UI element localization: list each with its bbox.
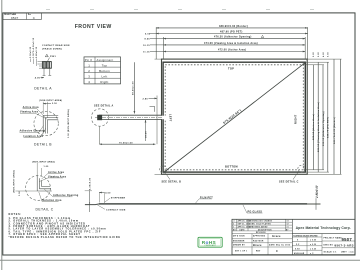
tail connector block	[97, 115, 102, 120]
top dimension extension lines	[155, 27, 157, 59]
svg-text:Top: Top	[102, 63, 108, 67]
svg-text:1.00: 1.00	[44, 166, 50, 168]
sign area	[232, 234, 292, 255]
zone tick marks top	[46, 9, 314, 11]
main panel outer rect (Border/PET)	[162, 59, 308, 174]
RoHS logo	[198, 237, 222, 247]
svg-text:4.60: 4.60	[322, 51, 325, 57]
svg-text:9507-3-AR3: 9507-3-AR3	[335, 243, 354, 247]
right extension lines	[303, 59, 341, 174]
tail top line	[99, 114, 162, 116]
svg-text:232.50 (Adhesive Opening): 232.50 (Adhesive Opening)	[322, 111, 325, 146]
svg-text:Grace: Grace	[272, 234, 281, 238]
svg-text:1: 1	[88, 63, 90, 67]
svg-text:NO: NO	[233, 229, 236, 231]
DETAIL B group	[20, 99, 71, 147]
svg-text:1.40±0.10: 1.40±0.10	[315, 185, 318, 198]
svg-text:2.50: 2.50	[52, 103, 58, 105]
svg-text:0.80±0.10: 0.80±0.10	[36, 46, 38, 58]
page edge left	[1, 0, 3, 270]
svg-text:Right: Right	[100, 80, 108, 84]
svg-text:C: C	[276, 249, 278, 253]
svg-text:Apex Material Technology Corp.: Apex Material Technology Corp.	[296, 226, 351, 230]
svg-text:5.90±0.20: 5.90±0.20	[30, 46, 32, 58]
svg-text:REV: REV	[256, 251, 261, 253]
diagonal dimension	[164, 63, 306, 173]
svg-text:R&D MGR: R&D MGR	[253, 240, 264, 242]
svg-text:1.00 (NON-INPUT AREA): 1.00 (NON-INPUT AREA)	[67, 109, 70, 138]
svg-text:UNIT : mm: UNIT : mm	[341, 251, 354, 253]
see detail A circle	[91, 109, 108, 126]
svg-text:C: C	[33, 16, 35, 20]
svg-text:10.15: 10.15	[143, 45, 150, 47]
project info	[322, 241, 355, 248]
svg-text:DR'D SIGN: DR'D SIGN	[233, 236, 245, 238]
svg-text:9507: 9507	[342, 237, 353, 242]
tail assembly	[91, 62, 166, 144]
svg-text:1.00: 1.00	[19, 190, 21, 196]
SEE DETAIL C circle at bottom-right corner	[298, 165, 305, 172]
svg-text:6.50: 6.50	[328, 51, 330, 57]
svg-text:DETAIL A: DETAIL A	[34, 86, 52, 90]
svg-text:Bottom: Bottom	[99, 69, 110, 73]
detail C circle	[26, 176, 51, 201]
svg-text:CONTACT REAR SIDE: CONTACT REAR SIDE	[42, 44, 70, 47]
corner lines	[43, 116, 47, 134]
gap in panel edge where tail exits	[161, 116, 167, 120]
svg-text:474.00 (Viewing Area & Isolati: 474.00 (Viewing Area & Isolation Area)	[204, 42, 258, 45]
dim 476.30 adhesive opening	[164, 38, 306, 40]
svg-text:70.00±1.00: 70.00±1.00	[119, 142, 133, 144]
tolerance table	[292, 234, 322, 255]
svg-text:NOTES:: NOTES:	[9, 213, 22, 216]
svg-text:SEE DETAIL A: SEE DETAIL A	[94, 104, 114, 107]
svg-text:9507: 9507	[11, 16, 19, 20]
apex company name	[292, 233, 355, 235]
svg-text:487.90 (PO PET): 487.90 (PO PET)	[220, 31, 243, 34]
svg-text:228.50 (Active Area): 228.50 (Active Area)	[312, 114, 315, 140]
svg-text:REVISION: REVISION	[256, 232, 266, 234]
tail bend / contact tip	[85, 203, 99, 206]
svg-text:*BEFORE DESIGN PLEASE REFER TO: *BEFORE DESIGN PLEASE REFER TO THE INTEG…	[9, 236, 121, 239]
svg-text:FRONT VIEW: FRONT VIEW	[75, 24, 112, 30]
svg-text:May 14, 2012: May 14, 2012	[276, 244, 290, 247]
svg-text:ANGULAR: ANGULAR	[294, 252, 305, 255]
svg-text:6.30±0.30: 6.30±0.30	[89, 177, 91, 190]
6.30 dim	[89, 190, 91, 212]
dim 488.90 border	[156, 27, 307, 29]
svg-text:DESCRIPTION: DESCRIPTION	[258, 229, 272, 231]
tail centerline	[95, 116, 162, 118]
dim 487.90 PO PET	[156, 33, 307, 35]
revision table rows	[232, 219, 292, 233]
notes	[9, 213, 121, 239]
svg-text:2.80: 2.80	[143, 98, 149, 100]
right end thickness dim	[307, 202, 320, 204]
dim 472.00 active area	[164, 51, 306, 53]
tail bottom line	[99, 119, 162, 121]
svg-text:4.00: 4.00	[35, 77, 41, 80]
svg-text:18.50: 18.50	[145, 131, 147, 138]
svg-text:SHT 1 OF 1: SHT 1 OF 1	[235, 251, 247, 253]
svg-text:488.90±0.30 (Border): 488.90±0.30 (Border)	[219, 25, 248, 28]
SEE DETAIL B circle at bottom-left corner	[160, 166, 167, 173]
svg-text:SEE DETAIL B: SEE DETAIL B	[162, 181, 182, 184]
svg-text:DETAIL C: DETAIL C	[36, 207, 54, 211]
svg-text:± 0.20: ± 0.20	[310, 248, 316, 250]
svg-text:STIFFENER: STIFFENER	[111, 198, 126, 200]
svg-text:CONTACT SIDE: CONTACT SIDE	[106, 209, 126, 212]
svg-text:6.20: 6.20	[318, 51, 320, 57]
svg-text:6.20: 6.20	[313, 51, 315, 57]
svg-text:#2: #2	[287, 224, 289, 226]
main panel dashed rect (active area)	[165, 65, 303, 170]
svg-text:± 0.50: ± 0.50	[310, 240, 316, 242]
svg-text:8.65: 8.65	[145, 39, 151, 41]
svg-text:476.30 (Adhesive Opening): 476.30 (Adhesive Opening)	[214, 36, 252, 39]
svg-text:ENGINEER: ENGINEER	[233, 240, 245, 242]
top edge left extension	[155, 58, 162, 60]
svg-text:240.70 (PO PET): 240.70 (PO PET)	[327, 117, 330, 138]
vertical line from circle to dim line	[98, 126, 100, 144]
svg-text:BOTTOM: BOTTOM	[225, 165, 238, 169]
dim 18.50 vertical	[145, 120, 147, 141]
svg-text:(NON-INPUT AREA): (NON-INPUT AREA)	[32, 160, 55, 163]
svg-text:SEE DETAIL C: SEE DETAIL C	[279, 180, 299, 183]
svg-text:BY: BY	[286, 229, 289, 231]
bottom edge left extension	[155, 173, 162, 175]
svg-text:241.70±0.30 (Border): 241.70±0.30 (Border)	[333, 117, 336, 144]
svg-text:2: 2	[88, 69, 90, 73]
side view	[85, 177, 321, 213]
svg-text:472.00 (Active Area): 472.00 (Active Area)	[218, 49, 246, 52]
svg-text:± 1°: ± 1°	[310, 253, 314, 255]
svg-text:PIN1: PIN1	[50, 56, 56, 58]
DETAIL C group	[13, 160, 79, 211]
main panel inner solid rect (adhesive opening)	[163, 62, 305, 172]
svg-text:SCALE 1:1: SCALE 1:1	[324, 250, 338, 253]
dim 68.40 extension	[133, 62, 135, 113]
svg-text:DRAWN BY: DRAWN BY	[233, 244, 246, 247]
svg-text:RIGHT: RIGHT	[294, 114, 298, 124]
pin assignment table	[84, 57, 121, 84]
svg-text:(NON-INPUT AREA): (NON-INPUT AREA)	[13, 170, 16, 193]
project mini table top-left	[3, 13, 42, 20]
svg-text:68.40±1.00: 68.40±1.00	[132, 81, 135, 95]
svg-text:LEFT: LEFT	[169, 114, 173, 122]
svg-text:Bruce: Bruce	[253, 243, 262, 247]
svg-text:#3: #3	[287, 221, 289, 223]
svg-text:4.00: 4.00	[105, 191, 111, 194]
svg-text:Assignment: Assignment	[97, 58, 114, 62]
svg-text:(TRACE DOWN): (TRACE DOWN)	[42, 47, 62, 50]
svg-text:Pin #: Pin #	[85, 58, 93, 62]
dim 70.00	[99, 143, 155, 145]
svg-text:2: 2	[233, 224, 234, 226]
svg-text:DWG NO :: DWG NO :	[324, 244, 335, 246]
page edge bottom	[0, 259, 360, 261]
detail B circle	[34, 111, 58, 135]
tail exit slot step	[150, 106, 155, 112]
svg-text:DATE: DATE	[269, 244, 275, 247]
right side vertical dimensions	[313, 59, 340, 174]
svg-text:1: 1	[233, 226, 234, 228]
film pet + glass side line	[99, 203, 307, 205]
svg-text:3: 3	[234, 221, 235, 223]
dim 474.00 viewing area	[164, 44, 306, 46]
svg-text:4: 4	[88, 80, 90, 84]
svg-text:APPROVED: APPROVED	[253, 235, 266, 238]
svg-text:231.50 (Viewing Area & Isolati: 231.50 (Viewing Area & Isolation Area)	[317, 102, 320, 152]
svg-text:± 0.30: ± 0.30	[310, 244, 316, 246]
svg-text:#1: #1	[287, 226, 289, 228]
connector symbol	[42, 62, 51, 69]
left small dims	[38, 61, 43, 63]
svg-text:(NON-INPUT AREA): (NON-INPUT AREA)	[39, 99, 62, 102]
pin1 marker	[45, 54, 48, 57]
svg-text:X.X: X.X	[296, 244, 300, 246]
title block	[232, 219, 355, 255]
4.00 dim above bend	[98, 192, 100, 203]
svg-text:X.XX: X.XX	[295, 248, 301, 250]
svg-text:6.00: 6.00	[145, 33, 151, 35]
DETAIL A group	[30, 37, 70, 90]
svg-text:DETAIL B: DETAIL B	[34, 143, 52, 147]
svg-text:TOP: TOP	[228, 67, 234, 71]
svg-text:1.00*2=2.00±0.10: 1.00*2=2.00±0.10	[33, 37, 35, 58]
svg-text:3: 3	[88, 74, 90, 78]
svg-text:11.15: 11.15	[143, 51, 150, 53]
corner lines (bottom-left)	[37, 176, 41, 191]
svg-text:Left: Left	[102, 74, 108, 78]
